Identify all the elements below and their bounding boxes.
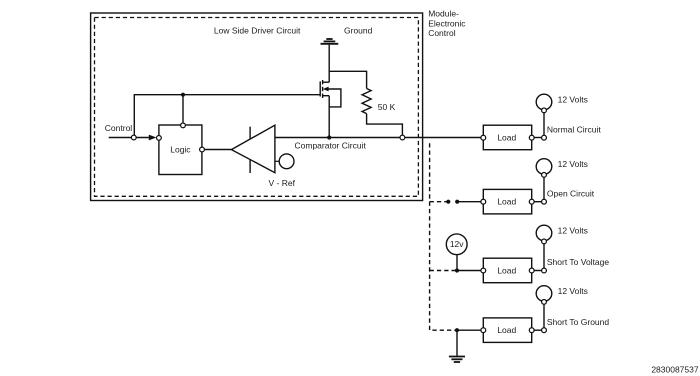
svg-text:Load: Load xyxy=(497,265,516,275)
svg-text:Load: Load xyxy=(497,197,516,207)
svg-text:2830087537: 2830087537 xyxy=(651,365,699,375)
svg-text:Short To Ground: Short To Ground xyxy=(547,317,609,327)
svg-text:12 Volts: 12 Volts xyxy=(558,286,588,296)
svg-text:12 Volts: 12 Volts xyxy=(558,95,588,105)
svg-text:Short To Voltage: Short To Voltage xyxy=(547,257,609,267)
svg-text:Load: Load xyxy=(497,325,516,335)
svg-text:Electronic: Electronic xyxy=(428,18,466,28)
svg-text:Low Side Driver Circuit: Low Side Driver Circuit xyxy=(214,25,301,35)
svg-text:Logic: Logic xyxy=(170,144,191,154)
svg-text:12 Volts: 12 Volts xyxy=(558,159,588,169)
svg-text:Control: Control xyxy=(105,123,133,133)
svg-text:12 Volts: 12 Volts xyxy=(558,226,588,236)
svg-text:V - Ref: V - Ref xyxy=(269,178,296,188)
svg-text:Normal Circuit: Normal Circuit xyxy=(547,125,601,135)
svg-text:Module-: Module- xyxy=(428,9,459,19)
svg-text:Load: Load xyxy=(497,133,516,143)
svg-text:Open Circuit: Open Circuit xyxy=(547,189,595,199)
svg-text:12v: 12v xyxy=(450,239,464,249)
svg-text:Control: Control xyxy=(428,28,456,38)
svg-text:50 K: 50 K xyxy=(378,102,396,112)
svg-text:Ground: Ground xyxy=(344,25,373,35)
svg-text:Comparator Circuit: Comparator Circuit xyxy=(295,141,367,151)
